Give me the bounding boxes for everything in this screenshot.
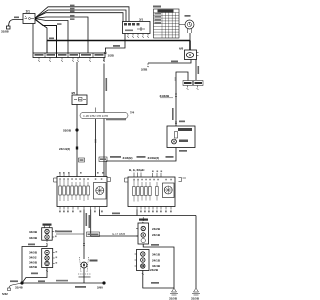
- svg-text:24/1B: 24/1B: [152, 233, 161, 237]
- svg-text:34/52: 34/52: [29, 256, 37, 260]
- connector box 3/1: [123, 18, 151, 34]
- stub above splice: [95, 108, 97, 113]
- label 14B: [113, 45, 120, 47]
- label 171 1B: [75, 286, 86, 288]
- svg-text:34/4(B): 34/4(B): [123, 156, 133, 160]
- label 1B boxed on relay wire: [79, 158, 85, 162]
- terminal 31/88: [1, 26, 10, 34]
- cluster left bottom pins: [60, 207, 100, 210]
- gauge sub box: [163, 183, 175, 198]
- wire to connectors 7/x: [195, 60, 197, 81]
- lamp1 top stubs: [45, 226, 50, 228]
- svg-text:34/5B: 34/5B: [29, 251, 38, 255]
- inline connector on sender wire: [83, 244, 85, 246]
- warning lamp box 1 right: [138, 223, 149, 244]
- wire cluster pin to ground rail right: [100, 210, 197, 216]
- voltage stabilizer box: [167, 126, 195, 148]
- wire battery feed left of 1/1: [9, 20, 24, 27]
- stub 14 1B left: [56, 233, 84, 235]
- svg-text:6/8: 6/8: [179, 47, 184, 51]
- wire L4: [35, 17, 88, 53]
- svg-text:2/90: 2/90: [97, 286, 103, 290]
- wire L2 fan to connector box: [35, 10, 126, 22]
- wire sender to ground bus: [83, 268, 85, 283]
- label 10R: [14, 17, 19, 19]
- svg-text:C-2B 37B2 37B 24TB: C-2B 37B2 37B 24TB: [83, 114, 108, 118]
- label 25R rotated: [198, 66, 200, 74]
- svg-text:34/3B: 34/3B: [29, 230, 38, 234]
- bus right bend to 6/8: [189, 41, 191, 51]
- wire relay to cluster: [76, 105, 78, 177]
- connector C8 left of right half: [125, 178, 128, 182]
- gauge sub box: [94, 183, 107, 200]
- ground G31/5 right: [191, 288, 200, 300]
- labels above feed line: [110, 156, 121, 158]
- wire L6: [35, 19, 57, 58]
- fuse row hooks below: [38, 58, 91, 62]
- wire dot to terminal 5/32: [9, 283, 22, 288]
- pin numbers left box: [59, 172, 172, 212]
- svg-text:24/2B: 24/2B: [152, 227, 161, 231]
- splice 24/14: [59, 147, 78, 152]
- svg-text:34/1B: 34/1B: [152, 253, 161, 257]
- svg-text:4/5: 4/5: [71, 91, 76, 95]
- wire stabilizer to cluster feed line: [106, 148, 176, 177]
- warning lamp box 2 left: [42, 249, 53, 268]
- svg-text:34/1B(2): 34/1B(2): [148, 156, 160, 160]
- wire 34/32(B) down right side: [176, 72, 188, 126]
- splice dot 2/90: [102, 281, 105, 284]
- wire right ground drop: [195, 216, 197, 289]
- resistors: [133, 187, 136, 196]
- top pin hooks: [134, 173, 161, 178]
- label 4 1B: [179, 150, 187, 152]
- svg-text:24/1B: 24/1B: [152, 259, 161, 263]
- fuse row strip: [33, 53, 105, 58]
- resistors: [59, 186, 62, 195]
- inline pin mark: [175, 122, 177, 124]
- connector 7/1: [183, 81, 193, 90]
- relay 4/5: [71, 91, 87, 105]
- svg-text:34/3B: 34/3B: [29, 236, 38, 240]
- svg-text:G-17 1B/B: G-17 1B/B: [112, 232, 125, 236]
- lamp1R top hook: [142, 217, 144, 223]
- wire connector box pin to 1/1 2B terminal: [105, 34, 125, 53]
- fuel sender: [78, 257, 98, 278]
- svg-text:3/1: 3/1: [139, 18, 144, 22]
- svg-text:1/1: 1/1: [26, 10, 31, 14]
- fuse/relay grid table: [153, 6, 191, 39]
- wire L1 fan to connector box: [35, 7, 129, 22]
- terminal 1/1 2B: [104, 52, 114, 58]
- svg-text:31/48: 31/48: [15, 286, 23, 290]
- splice dot 31/48: [20, 281, 23, 284]
- svg-text:24/14(2): 24/14(2): [59, 147, 70, 151]
- lamp1 right pins: [52, 232, 54, 238]
- wire 34/32 top: 6/8 to hook: [148, 60, 191, 64]
- ignition switch 1/1: [23, 10, 35, 24]
- instrument cluster right half: [128, 168, 175, 207]
- lamp2R bottom wire to ground: [143, 271, 174, 289]
- ground bus bottom left: [22, 282, 104, 284]
- wire fuse to relay 4/5: [76, 62, 78, 95]
- svg-text:34/5B: 34/5B: [29, 265, 38, 269]
- wire lamp1 to left drop: [22, 245, 47, 284]
- node C-28 splice oval: [80, 111, 135, 119]
- svg-text:31/5B: 31/5B: [191, 297, 200, 300]
- lamp1R left pin: [136, 229, 138, 237]
- connector D8 right of right half: [179, 178, 187, 182]
- label 34 1B/R rotated: [106, 78, 108, 91]
- wire from 1/1 bottom: [32, 24, 34, 54]
- label 34/32(B): [160, 94, 178, 98]
- wire fuse to cluster pin right: [103, 58, 105, 177]
- instrument cluster left half: [57, 173, 107, 207]
- lamp2R left pins: [135, 254, 137, 266]
- splice dot 53/5B: [63, 128, 79, 132]
- svg-text:34/5B: 34/5B: [29, 261, 38, 265]
- connector 7/2: [194, 81, 204, 90]
- wire C-28 down to cluster: [95, 119, 97, 177]
- svg-text:24/2B: 24/2B: [150, 268, 159, 272]
- wire L3 fan to connector box: [35, 13, 123, 22]
- lamp1R bottom wire to right drop: [143, 244, 174, 288]
- top pins: [60, 173, 69, 177]
- connector box bottom hooks: [127, 34, 149, 38]
- label 1B on bus: [49, 38, 54, 40]
- svg-text:1/2B: 1/2B: [108, 54, 115, 58]
- lamp2 right pins: [53, 253, 55, 264]
- svg-text:53/5B: 53/5B: [63, 129, 72, 133]
- svg-text:31/88: 31/88: [1, 30, 9, 34]
- clock gauge: [179, 20, 194, 33]
- warning lamp box 1 left: [42, 228, 53, 241]
- wire gauge labels: [70, 5, 75, 7]
- bus drop to fuse row: [46, 41, 48, 54]
- wire L7 diagonal: [35, 20, 47, 54]
- pin numbers right box: [133, 170, 172, 213]
- svg-text:31/5B: 31/5B: [169, 297, 178, 300]
- wire clock to bus: [189, 33, 191, 41]
- wire cluster pin to fuel sender: [83, 210, 85, 260]
- label 24/2B 1B(B): [106, 119, 126, 121]
- wire cluster pin to bulb G-17: [91, 210, 138, 237]
- motor 6/8: [179, 47, 199, 60]
- label 14B on that wire: [171, 61, 178, 63]
- svg-text:2/2B: 2/2B: [141, 68, 148, 72]
- label xx1B boxed: [99, 157, 107, 162]
- bus bar 15A feed: [47, 40, 190, 42]
- cluster right bottom pins: [137, 207, 171, 210]
- lamp2 bottom wire: [22, 268, 47, 284]
- ground G31/5 left: [169, 288, 178, 300]
- svg-text:7/4: 7/4: [130, 111, 135, 115]
- svg-text:34/32B: 34/32B: [160, 94, 171, 98]
- label 34/31 1B: [56, 280, 68, 282]
- svg-text:5/32: 5/32: [2, 292, 8, 296]
- label 8 14+8P: [55, 231, 72, 233]
- warning lamp box 2 right: [137, 250, 150, 271]
- connector C8 left of left half: [54, 178, 57, 182]
- lamp1 bottom hook: [46, 240, 48, 244]
- wire L5: [35, 19, 68, 53]
- label 1B R/B rotated: [172, 108, 174, 120]
- connector D8 right of left half: [108, 178, 111, 182]
